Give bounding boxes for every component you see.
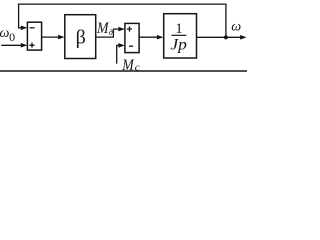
wire: β to S2 (step up) (96, 29, 119, 37)
1/Jp fraction bar (172, 34, 187, 36)
svg-text:M: M (121, 57, 135, 74)
bottom rule (0, 70, 247, 72)
svg-text:д: д (109, 28, 113, 37)
svg-text:β: β (76, 26, 86, 48)
wire: input ω0 arrow (1, 44, 21, 46)
node: output junction dot (224, 35, 228, 39)
svg-text:1: 1 (175, 21, 183, 37)
svg-text:c: c (135, 61, 140, 73)
arrowhead into S1 top (minus) input (21, 26, 28, 31)
block 1/Jp box (164, 14, 197, 58)
block β box (65, 15, 96, 59)
summer S2 box (125, 23, 139, 52)
S2 plus sign (127, 26, 132, 31)
wire: Mc input rising into S2 bottom (minus) input (117, 45, 120, 63)
S2 minus sign (129, 45, 133, 47)
wire: feedback from output node over the top to summer S1 (19, 4, 226, 37)
S1 plus sign (29, 43, 34, 48)
svg-text:Jp: Jp (170, 37, 187, 54)
wire: S1 to β block (42, 36, 60, 38)
wire: S2 to 1/Jp block (139, 36, 158, 38)
wire: output ω (197, 36, 241, 38)
summer S1 box (27, 22, 41, 50)
svg-text:ω: ω (0, 26, 10, 41)
S1 minus sign (30, 27, 35, 29)
svg-text:ω: ω (231, 20, 241, 35)
svg-text:0: 0 (9, 30, 15, 44)
